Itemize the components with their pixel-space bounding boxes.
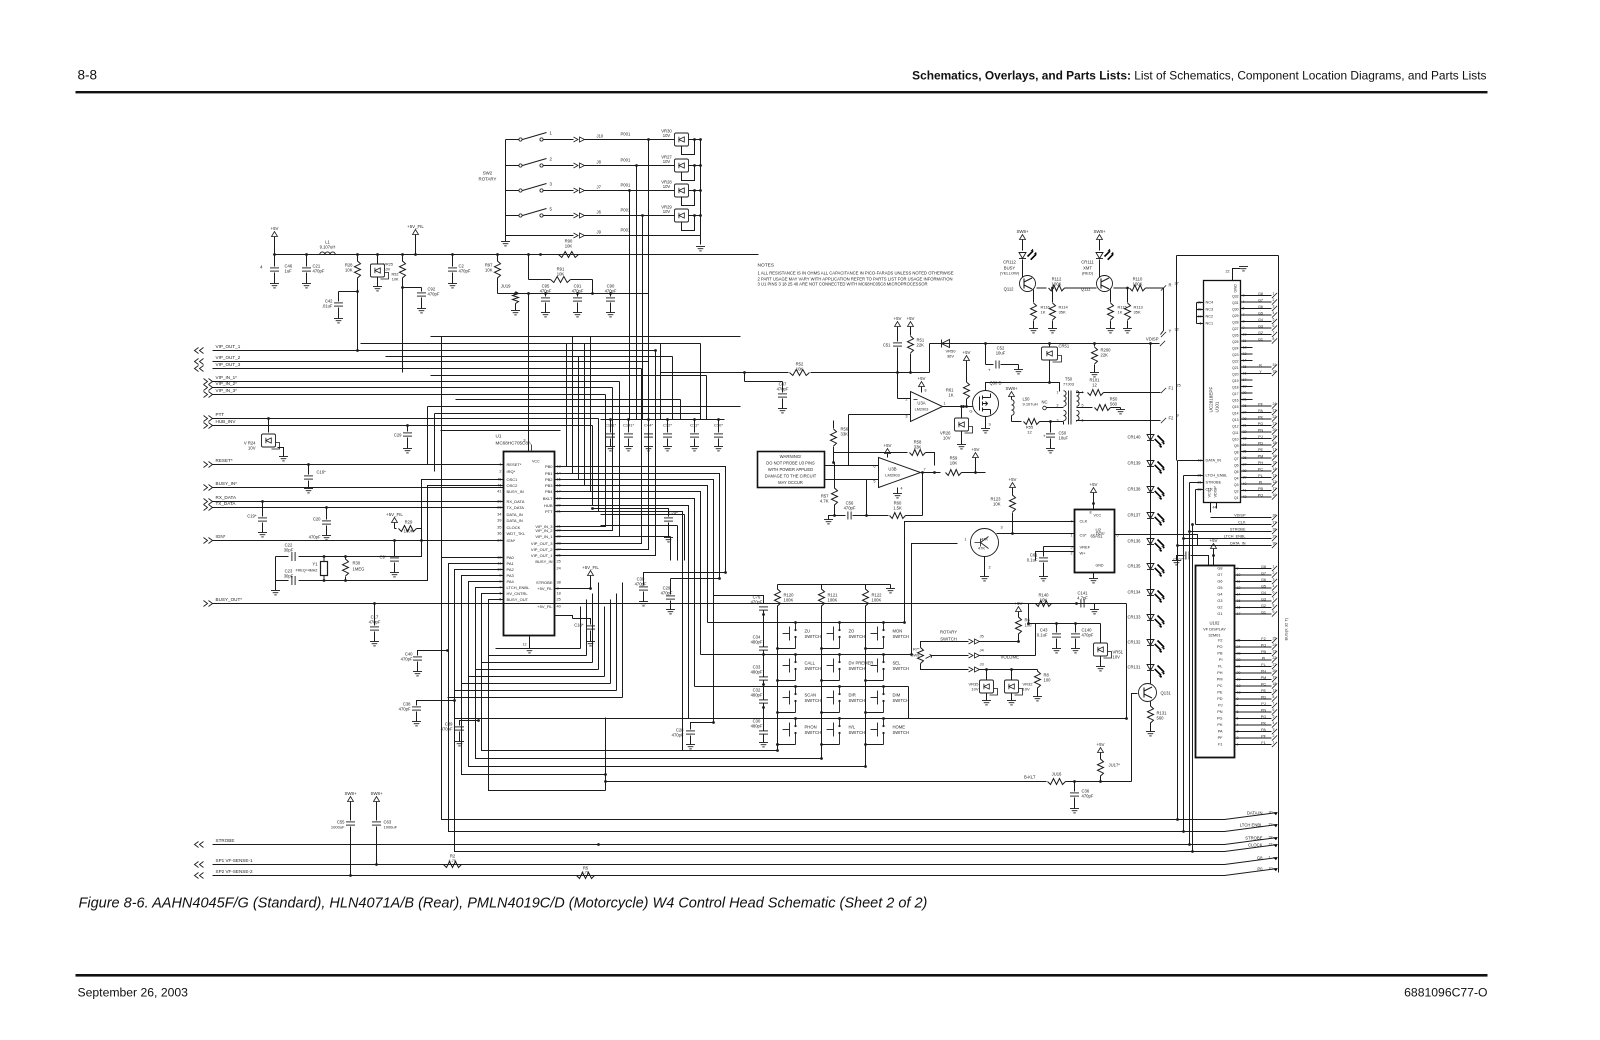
svg-text:CR133: CR133 [1127, 615, 1141, 620]
svg-text:Y: Y [1259, 370, 1262, 374]
svg-text:PF: PF [1261, 735, 1267, 739]
svg-text:STROBE: STROBE [216, 838, 235, 843]
node VIP_IN_3* [204, 392, 213, 398]
svg-text:4: 4 [260, 265, 263, 270]
svg-text:2: 2 [1273, 298, 1275, 302]
wire R140 left riser [1028, 604, 1030, 624]
ground R8 [1033, 697, 1042, 701]
wire U2 DOU out [1115, 535, 1198, 546]
switch DIM [882, 685, 885, 688]
+5V R51 [908, 322, 914, 327]
svg-text:Q20: Q20 [1232, 373, 1239, 377]
wire ring [462, 683, 611, 685]
svg-text:3: 3 [1001, 526, 1003, 530]
svg-text:Q131: Q131 [1161, 691, 1172, 696]
svg-text:BUSY_IN: BUSY_IN [535, 559, 552, 564]
svg-text:39: 39 [497, 519, 501, 523]
svg-text:10V: 10V [663, 133, 671, 138]
svg-text:SW8+: SW8+ [370, 791, 383, 796]
wire U3A input minus [898, 398, 911, 400]
svg-text:C20: C20 [313, 517, 321, 522]
svg-text:HUB_INV: HUB_INV [216, 419, 237, 424]
wire loop [455, 570, 1225, 852]
svg-text:7: 7 [1071, 520, 1073, 524]
VF display U102 [1196, 566, 1235, 758]
svg-text:470pF: 470pF [313, 269, 325, 274]
svg-text:24: 24 [1273, 402, 1277, 406]
svg-text:H/L: H/L [849, 725, 856, 730]
wire SP2_VF-SENSE-2 [213, 875, 1225, 877]
svg-text:SP1 VF-SENSE-1: SP1 VF-SENSE-1 [216, 858, 253, 863]
node TX_DATA [204, 505, 213, 511]
op-amp U3B LM2903 [879, 458, 921, 488]
+5V rail wire [275, 254, 759, 256]
svg-text:DAMAGE TO THE CIRCUIT: DAMAGE TO THE CIRCUIT [765, 474, 817, 479]
svg-text:PI: PI [1262, 657, 1266, 661]
ground C39 [455, 742, 464, 746]
svg-text:CR136: CR136 [1127, 539, 1141, 544]
wire crystal left [275, 557, 277, 581]
svg-text:8: 8 [1273, 604, 1275, 608]
svg-text:G2: G2 [1258, 331, 1263, 335]
wire U3A input plus [849, 414, 911, 416]
node STROBE [195, 842, 204, 848]
svg-text:F1: F1 [1261, 741, 1265, 745]
svg-text:R: R [1169, 283, 1172, 288]
svg-text:SW2: SW2 [483, 171, 493, 176]
svg-text:VIP_IN_2: VIP_IN_2 [535, 528, 553, 533]
svg-text:4.7pF: 4.7pF [1077, 596, 1088, 601]
svg-text:ZU: ZU [805, 629, 811, 634]
svg-text:Q6: Q6 [1234, 464, 1239, 468]
svg-text:470pF: 470pF [459, 269, 471, 274]
svg-text:44: 44 [1213, 506, 1217, 510]
wire PTT drop [555, 419, 599, 512]
svg-text:G4: G4 [1258, 318, 1263, 322]
svg-text:SWITCH: SWITCH [805, 634, 822, 639]
wire DATA_IN bottom [442, 819, 1225, 821]
svg-text:CR112: CR112 [1003, 260, 1016, 265]
wire R28 drop [357, 292, 359, 351]
svg-text:47K: 47K [978, 546, 985, 551]
svg-text:DV PREMER: DV PREMER [849, 661, 874, 666]
svg-text:+5V: +5V [1009, 477, 1017, 482]
svg-text:33K: 33K [841, 432, 849, 437]
svg-text:September 26, 2003: September 26, 2003 [78, 986, 189, 1000]
svg-text:470pF: 470pF [441, 727, 453, 732]
svg-text:18: 18 [557, 592, 561, 596]
svg-text:36V: 36V [947, 354, 954, 359]
svg-text:PI: PI [1259, 481, 1263, 485]
svg-text:Q4: Q4 [1234, 477, 1239, 481]
ground C20 [322, 536, 331, 540]
matrix row wire [741, 654, 912, 656]
svg-text:PTT: PTT [545, 509, 553, 514]
svg-text:1: 1 [964, 538, 966, 542]
svg-text:+5V: +5V [271, 226, 279, 231]
node SP2_VF-SENSE-2 [195, 873, 204, 879]
svg-text:20: 20 [1273, 428, 1277, 432]
jumper JU17 [1098, 748, 1104, 753]
svg-text:+5V: +5V [884, 443, 892, 448]
svg-text:6: 6 [1273, 591, 1275, 595]
ground C50 [1046, 449, 1055, 453]
svg-text:1MEG: 1MEG [353, 567, 365, 572]
wire STROBE ramp [1225, 838, 1278, 845]
wire matrix column extensions [865, 745, 867, 767]
svg-text:3: 3 [1057, 419, 1059, 423]
svg-text:0.1uF: 0.1uF [1037, 633, 1048, 638]
ground C12* [663, 447, 672, 451]
svg-text:PM: PM [1258, 455, 1264, 459]
ground C2 [448, 284, 457, 288]
svg-text:1K: 1K [1118, 310, 1123, 315]
wire VIP_OUT_2 [213, 361, 649, 363]
svg-text:VIP_OUT_1: VIP_OUT_1 [216, 344, 241, 349]
svg-text:SW8+: SW8+ [344, 791, 357, 796]
svg-text:+5V: +5V [1090, 482, 1098, 487]
svg-text:(YELLOW): (YELLOW) [1000, 271, 1020, 276]
switch SCAN [794, 685, 797, 688]
svg-text:PO: PO [1217, 645, 1223, 649]
svg-text:U3B: U3B [888, 467, 896, 472]
svg-text:PE: PE [1258, 448, 1264, 452]
svg-text:Q27: Q27 [1232, 327, 1239, 331]
bus rail wire [1278, 256, 1280, 873]
svg-text:PA2: PA2 [507, 567, 515, 572]
matrix row wire [741, 622, 905, 624]
svg-text:1: 1 [944, 402, 946, 406]
svg-text:1: 1 [1273, 741, 1275, 745]
svg-text:10K: 10K [993, 502, 1001, 507]
+5V_FIL near U1 [588, 571, 594, 576]
op-amp U3A LM2903 [911, 392, 943, 422]
svg-text:480pF: 480pF [751, 640, 763, 645]
svg-text:BUSY_OUT: BUSY_OUT [507, 597, 529, 602]
ground C11* [690, 447, 699, 451]
svg-text:R30: R30 [353, 561, 361, 566]
svg-text:DATA_IN: DATA_IN [1230, 542, 1246, 546]
svg-text:R29: R29 [405, 520, 413, 525]
svg-text:Q31: Q31 [1232, 301, 1239, 305]
wire [555, 492, 701, 655]
svg-text:PJ: PJ [1218, 704, 1223, 708]
wire U101 VDISP stub [1210, 503, 1212, 513]
svg-text:RX_DATA: RX_DATA [507, 499, 525, 504]
svg-text:38: 38 [557, 581, 561, 585]
svg-text:OSC1: OSC1 [507, 477, 519, 482]
wire cap chain top [714, 596, 764, 604]
ground C46 [270, 284, 279, 288]
svg-text:Q24: Q24 [1232, 347, 1239, 351]
wire VIP_IN_3 drop [555, 395, 606, 527]
ground R131 [1146, 732, 1155, 736]
svg-text:PA4: PA4 [507, 579, 515, 584]
ground C140 [1071, 649, 1080, 653]
svg-text:31: 31 [1273, 363, 1277, 367]
svg-text:30: 30 [1273, 542, 1277, 546]
P001 drop wire 2 [636, 166, 638, 420]
wire HUB drop [555, 426, 593, 506]
svg-text:HOME: HOME [893, 725, 906, 730]
svg-text:19: 19 [1273, 435, 1277, 439]
ground C36 [1070, 809, 1079, 813]
ground C61 [1039, 577, 1048, 581]
svg-text:18: 18 [1273, 682, 1277, 686]
svg-text:PM: PM [1261, 676, 1267, 680]
wire right outer loop [1177, 255, 1279, 257]
svg-text:VDISP: VDISP [1234, 514, 1246, 518]
+5V R59 [973, 453, 979, 458]
svg-text:3: 3 [1273, 578, 1275, 582]
wire DATA_IN ramp [1225, 813, 1278, 820]
svg-text:PA1: PA1 [507, 561, 515, 566]
svg-text:NOTES: NOTES [758, 263, 775, 269]
svg-text:24: 24 [1273, 643, 1277, 647]
svg-text:470pF: 470pF [1082, 794, 1094, 799]
svg-text:CLOCK: CLOCK [507, 525, 521, 530]
+5V_FIL IGN pullup [392, 518, 398, 523]
svg-text:PA: PA [1258, 409, 1263, 413]
svg-text:10K: 10K [557, 272, 565, 277]
svg-text:4.7K: 4.7K [820, 499, 829, 504]
wire Q111 emitter [1110, 290, 1112, 303]
ground crystal [275, 581, 277, 591]
svg-text:480pF: 480pF [751, 670, 763, 675]
U101 GND pin [1233, 269, 1241, 281]
svg-text:Q16: Q16 [1232, 399, 1239, 403]
svg-text:G1: G1 [1217, 612, 1222, 616]
node R pin27 [1161, 285, 1166, 290]
wire Q50 source ground [985, 417, 987, 429]
svg-text:PB1: PB1 [545, 471, 553, 476]
svg-text:23: 23 [1273, 409, 1277, 413]
svg-text:LTCH_ENBL: LTCH_ENBL [507, 585, 531, 590]
svg-text:480pF: 480pF [751, 693, 763, 698]
svg-text:1: 1 [1273, 565, 1275, 569]
warning box [758, 452, 825, 488]
svg-text:Q112: Q112 [1004, 287, 1015, 292]
svg-text:22: 22 [1273, 415, 1277, 419]
svg-text:560: 560 [1110, 402, 1118, 407]
svg-text:BUSY_IN*: BUSY_IN* [216, 481, 238, 486]
svg-text:STROBE: STROBE [1206, 481, 1222, 485]
ground C44* [644, 447, 653, 451]
node HUB_INV [204, 423, 213, 429]
wire LTCH_ENBL ramp [1225, 825, 1278, 832]
svg-text:20: 20 [1273, 669, 1277, 673]
svg-text:VDISP: VDISP [1146, 337, 1159, 342]
svg-text:RESET*: RESET* [216, 458, 233, 463]
wire VR28 loop [682, 191, 695, 206]
svg-text:W+: W+ [1080, 551, 1087, 556]
SW2 pole row 3 [519, 189, 522, 192]
svg-text:Q13: Q13 [1232, 418, 1239, 422]
ground C9 [390, 573, 399, 577]
svg-text:OSC2: OSC2 [507, 483, 519, 488]
wire mid bundle horizontals [601, 514, 685, 516]
+5V op-amp A [895, 322, 901, 327]
node RESET* [204, 462, 213, 468]
svg-text:9.107uH: 9.107uH [320, 245, 336, 250]
svg-text:5: 5 [1082, 404, 1084, 408]
wire VR29 loop [682, 216, 695, 231]
svg-text:CR131: CR131 [1127, 665, 1141, 670]
wire R52 node to rail [929, 344, 931, 373]
svg-text:STROBE: STROBE [1230, 528, 1246, 532]
svg-text:12: 12 [1092, 383, 1097, 388]
wire T50 sec bottom F2 [1077, 421, 1161, 422]
svg-text:.01uF: .01uF [322, 304, 333, 309]
wire Q10 base [912, 544, 958, 655]
svg-text:MAY OCCUR: MAY OCCUR [778, 480, 803, 485]
SW2 pole row 2 [519, 164, 522, 167]
svg-text:PN: PN [1258, 429, 1264, 433]
svg-text:SWITCH: SWITCH [893, 666, 910, 671]
wire U3B output [921, 472, 941, 474]
svg-text:10K: 10K [392, 278, 399, 282]
ground R116 [1029, 329, 1038, 333]
svg-text:+5V: +5V [907, 316, 915, 321]
wire cap chain [763, 651, 765, 677]
svg-text:F2: F2 [1261, 637, 1265, 641]
svg-text:VIP_OUT_2: VIP_OUT_2 [216, 355, 241, 360]
svg-text:PL: PL [1258, 474, 1263, 478]
ground R57 [829, 516, 835, 520]
svg-text:36: 36 [497, 532, 501, 536]
svg-text:24: 24 [557, 567, 561, 571]
svg-text:2: 2 [499, 470, 501, 474]
svg-text:SWITCH: SWITCH [940, 637, 957, 642]
ground C38 [412, 722, 421, 726]
svg-text:TX_DATA: TX_DATA [216, 501, 237, 506]
svg-text:21: 21 [1273, 422, 1277, 426]
LED rail wire [1150, 344, 1152, 674]
svg-text:G4: G4 [1217, 593, 1222, 597]
svg-text:470pF: 470pF [428, 292, 440, 297]
svg-text:U101: U101 [1215, 401, 1220, 412]
svg-text:32M01: 32M01 [1208, 633, 1221, 638]
svg-text:Y: Y [1169, 329, 1172, 334]
wire crystal to OSC1 [323, 480, 504, 557]
svg-text:PN: PN [1217, 710, 1223, 714]
svg-text:+5V_FIL: +5V_FIL [537, 586, 553, 591]
svg-text:SWITCH: SWITCH [849, 634, 866, 639]
wire J5 [931, 641, 969, 643]
wire VIP_IN_2 drop [555, 388, 613, 531]
svg-text:VF DISPLAY: VF DISPLAY [1203, 627, 1226, 632]
svg-text:MC68HC705C8A: MC68HC705C8A [496, 441, 532, 446]
svg-text:Q10: Q10 [1232, 438, 1239, 442]
svg-text:Q7: Q7 [1234, 457, 1239, 461]
node VIP_OUT_2 [195, 359, 204, 365]
ground C21 [302, 284, 311, 288]
wire P0 ramp [1225, 869, 1278, 876]
svg-text:SW8+: SW8+ [1005, 386, 1018, 391]
wire VIP_IN_1 drop [555, 382, 620, 537]
svg-text:+: + [988, 368, 991, 373]
svg-text:8-8: 8-8 [78, 68, 98, 83]
svg-text:3: 3 [1273, 728, 1275, 732]
+5V R61 [964, 356, 970, 361]
svg-text:SW8+: SW8+ [1093, 229, 1106, 234]
ground C10* [714, 447, 723, 451]
svg-text:IGN*: IGN* [216, 534, 226, 539]
svg-text:+5V: +5V [963, 350, 971, 355]
svg-text:10V: 10V [663, 209, 671, 214]
SW8+ symbol C55 [348, 797, 354, 802]
ground C141* [624, 447, 633, 451]
svg-text:G8: G8 [1261, 565, 1266, 569]
svg-text:PHON: PHON [805, 725, 817, 730]
wire IGN* [213, 540, 504, 542]
ground matrix bus [890, 585, 892, 589]
svg-text:SP2 VF-SENSE-2: SP2 VF-SENSE-2 [216, 869, 253, 874]
svg-text:SWITCH: SWITCH [805, 698, 822, 703]
svg-text:VIP_IN_1*: VIP_IN_1* [216, 375, 238, 380]
svg-text:1: 1 [1273, 292, 1275, 296]
svg-text:PH: PH [1258, 461, 1264, 465]
svg-text:10V: 10V [1113, 655, 1121, 660]
svg-text:PG: PG [1258, 422, 1264, 426]
+5V supply symbol [272, 232, 278, 237]
wire SP1_VF-SENSE-1 [213, 864, 1225, 866]
svg-text:DIR: DIR [849, 693, 856, 698]
svg-text:470pF: 470pF [309, 535, 321, 540]
VF driver U101 UC2818EPF [1204, 281, 1241, 503]
ground C95 [541, 313, 550, 317]
svg-text:30pF: 30pF [284, 548, 294, 553]
svg-text:G5: G5 [1258, 312, 1263, 316]
svg-text:3: 3 [523, 439, 525, 443]
node VIP_IN_1* [204, 379, 213, 385]
wire cap chain [763, 704, 765, 731]
svg-text:SWITCH: SWITCH [849, 730, 866, 735]
svg-text:8: 8 [1273, 337, 1275, 341]
wire weave verticals [427, 407, 429, 465]
ground C141 [1090, 610, 1099, 614]
ground C19 [258, 533, 267, 537]
svg-text:10V: 10V [971, 687, 978, 692]
svg-text:C16*: C16* [317, 470, 327, 475]
svg-text:P001: P001 [621, 183, 631, 188]
ground C151* [606, 447, 615, 451]
svg-text:JU16: JU16 [1052, 772, 1062, 777]
svg-text:BKLT: BKLT [543, 496, 553, 501]
svg-text:CR132: CR132 [1127, 640, 1141, 645]
svg-text:8: 8 [1273, 695, 1275, 699]
P001 drop wire 3 [629, 191, 631, 420]
svg-text:1K: 1K [948, 393, 953, 398]
svg-text:FL: FL [1261, 663, 1265, 667]
svg-text:LTCH_ENBL: LTCH_ENBL [1224, 535, 1246, 539]
ground C43 [1052, 649, 1061, 653]
svg-text:10: 10 [1273, 493, 1277, 497]
svg-text:Q21: Q21 [1232, 366, 1239, 370]
svg-text:SW8+: SW8+ [1016, 229, 1029, 234]
svg-text:Y1: Y1 [312, 562, 318, 567]
svg-text:5: 5 [873, 480, 875, 484]
svg-text:G4: G4 [1261, 591, 1266, 595]
svg-text:PG: PG [1217, 717, 1223, 721]
wire VIP_OUT_1 drop [555, 351, 656, 556]
wire VIP_IN_2* [213, 387, 613, 389]
wire bklt vertical extension [605, 775, 607, 791]
svg-text:LM2903: LM2903 [915, 408, 929, 412]
svg-text:13: 13 [1273, 689, 1277, 693]
svg-text:46: 46 [497, 484, 501, 488]
footer rule [76, 974, 1488, 977]
